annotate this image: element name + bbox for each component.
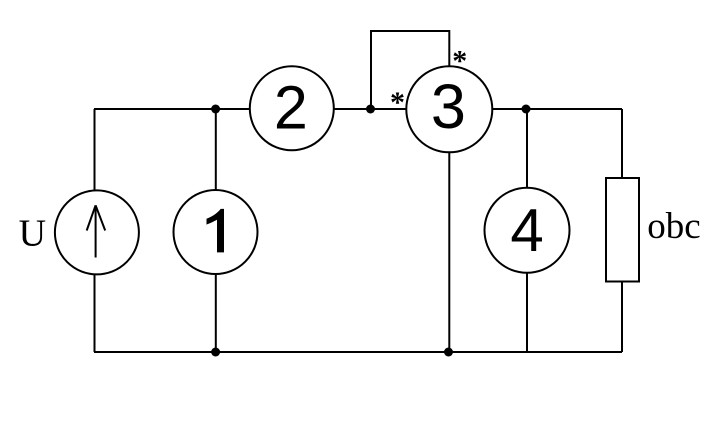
source U circle — [55, 190, 139, 274]
wire right branch x=622 (load branch) — [621, 109, 623, 352]
svg-text:3: 3 — [431, 72, 466, 142]
source U arrow — [87, 205, 106, 257]
node junction dot top above meter 1 — [211, 105, 220, 114]
wire meter-3 bottom branch x=449.3 — [448, 109, 450, 352]
wire left branch x=94 (source U branch) — [94, 109, 96, 352]
meter 3 circle (wattmeter) — [406, 66, 492, 152]
wire meter-1 branch x=215.3 — [215, 109, 217, 352]
node junction dot above meter 4 — [522, 105, 531, 114]
svg-text:2: 2 — [274, 74, 308, 142]
meter 2 circle — [250, 66, 334, 150]
svg-text:obc: obc — [647, 206, 700, 247]
label 1 — [207, 209, 225, 253]
wire top bus y=109 from left corner to right corner — [94, 108, 622, 110]
wire meter-4 branch x=526.5 — [526, 109, 528, 352]
load resistor obc rectangle — [606, 178, 639, 282]
svg-text:*: * — [390, 86, 405, 119]
svg-text:*: * — [452, 44, 467, 77]
node junction dot bottom below meter 3 — [444, 348, 453, 357]
meter 1 circle — [174, 190, 258, 274]
node junction dot left of meter 3 — [366, 105, 375, 114]
meter 4 circle — [485, 188, 570, 273]
wire bottom bus y=352 — [94, 351, 622, 353]
svg-text:U: U — [19, 213, 46, 255]
svg-text:4: 4 — [510, 197, 543, 264]
wire voltage-coil loop of W3 — [371, 31, 449, 109]
node junction dot bottom below meter 1 — [211, 348, 220, 357]
